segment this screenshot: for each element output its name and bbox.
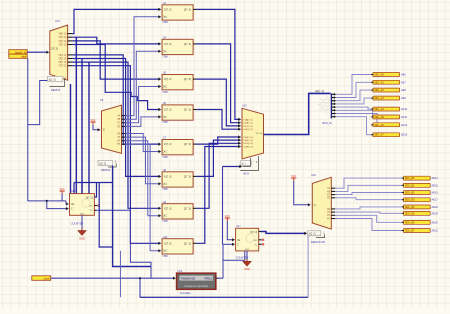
svg-text:SEG_A4: SEG_A4 <box>374 108 384 111</box>
svg-text:C: C <box>165 50 167 53</box>
wire demux U8 YD to register U6 C <box>125 117 159 127</box>
demux U8 DEMUX1X8 middle trapezoid <box>102 105 126 153</box>
svg-text:Q[7..0]: Q[7..0] <box>184 43 192 46</box>
wire demux Y7 to register U10 D <box>73 66 159 244</box>
demux U19 select hook wire <box>316 234 325 237</box>
wire VCC to U17 CE <box>227 221 232 240</box>
wire demux Y2 to register U5 D <box>73 41 159 79</box>
svg-text:MUX: MUX <box>243 172 249 176</box>
svg-text:D[7..0]: D[7..0] <box>164 43 171 46</box>
wire demux U19 YA to output label SEG_B0 <box>335 178 402 188</box>
counter U11 CLK to GND wire <box>81 215 83 230</box>
svg-text:C: C <box>165 250 167 253</box>
svg-text:YC: YC <box>327 195 331 197</box>
svg-text:SEG_A1: SEG_A1 <box>374 81 384 84</box>
svg-text:SEG_A7: SEG_A7 <box>374 134 384 137</box>
wire data label down the left side <box>28 58 66 201</box>
wire demux Y0 to register U3 D <box>73 9 159 33</box>
output label box SEG_B5 <box>402 211 430 215</box>
wire ripper tap 3 to output label SEG_A3 <box>336 98 371 104</box>
pin stub D U6 <box>193 109 197 111</box>
wire demux Y5 to register U8 D <box>73 59 159 177</box>
svg-text:C: C <box>165 151 167 154</box>
bus ripper tap 7 <box>331 116 334 118</box>
svg-text:SEG_B5: SEG_B5 <box>405 212 415 215</box>
wire U11 CE from junction <box>65 201 67 204</box>
svg-text:Q[7..0]: Q[7..0] <box>86 198 93 200</box>
svg-text:S[2..0]: S[2..0] <box>99 162 106 165</box>
svg-text:D0D[7..0]: D0D[7..0] <box>243 129 253 131</box>
svg-text:clock: clock <box>44 277 51 281</box>
svg-text:VCC: VCC <box>225 215 230 218</box>
power VCC <box>291 175 296 181</box>
wire input data bus to demux U14 D input <box>27 51 47 53</box>
output label box SEG_A2 <box>371 88 399 92</box>
svg-text:YB: YB <box>327 191 331 193</box>
wire demux U8 YB to register U4 C <box>125 51 159 119</box>
output label box SEG_A4 <box>371 107 399 111</box>
demux U14 DEMUX1X8 top-left trapezoid <box>50 25 73 80</box>
svg-text:CLKGEN: CLKGEN <box>180 291 191 295</box>
register U10 7398 <box>162 239 193 254</box>
svg-text:AE19: AE19 <box>432 211 439 215</box>
output label box SEG_A0 <box>371 73 399 77</box>
counter U11 right pin stub unconnected <box>94 205 97 207</box>
svg-text:Q[7..0]: Q[7..0] <box>184 143 192 146</box>
register U3 7398 <box>162 5 193 20</box>
svg-text:SEG_B7: SEG_B7 <box>405 230 415 233</box>
svg-text:S[2..0]: S[2..0] <box>309 233 316 236</box>
wire mux U15 select from clock/select vertical <box>223 166 241 168</box>
svg-text:D0F[7..0]: D0F[7..0] <box>243 140 252 142</box>
svg-text:AE7: AE7 <box>401 80 406 84</box>
svg-text:YC: YC <box>117 123 121 125</box>
output label box SEG_B1 <box>402 183 430 187</box>
svg-text:YH: YH <box>327 218 331 220</box>
svg-text:YA: YA <box>117 115 120 118</box>
svg-text:D0G[7..0]: D0G[7..0] <box>243 143 253 145</box>
svg-text:U14: U14 <box>55 20 60 23</box>
demux U8 select hook wire <box>108 163 116 167</box>
output label box SEG_B6 <box>402 220 430 224</box>
svg-text:U19: U19 <box>311 174 316 177</box>
svg-text:AE12: AE12 <box>401 123 408 127</box>
svg-text:D0H[7..0]: D0H[7..0] <box>243 146 253 148</box>
demux U19 DEMUX1X8 lower-right trapezoid <box>312 177 335 229</box>
input port label Data[7..0] <box>9 50 27 59</box>
pin stub D U5 <box>193 78 197 80</box>
ground GND U17 <box>243 259 252 271</box>
svg-text:D[7..0]: D[7..0] <box>164 207 171 210</box>
register U7 7398 <box>162 140 193 155</box>
svg-text:Y3[7..0]: Y3[7..0] <box>58 44 66 46</box>
demux U19 select box <box>308 231 321 236</box>
pin stub D U7 <box>193 143 197 145</box>
svg-text:DEMUX: DEMUX <box>101 168 111 172</box>
svg-text:Q[7..0]: Q[7..0] <box>184 175 192 178</box>
svg-text:SEG_A6: SEG_A6 <box>374 124 384 127</box>
svg-text:U10: U10 <box>163 236 168 239</box>
wire ripper tap 1 to output label SEG_A1 <box>336 82 371 97</box>
svg-text:Y2[7..0]: Y2[7..0] <box>58 41 66 43</box>
svg-text:U17: U17 <box>236 225 241 228</box>
wire demux U8 YC to register U5 C <box>125 87 159 123</box>
output label box SEG_B4 <box>402 205 430 209</box>
svg-text:SEG_A5: SEG_A5 <box>374 116 384 119</box>
svg-text:DEMUX: DEMUX <box>51 88 61 92</box>
svg-text:GND: GND <box>244 267 250 271</box>
svg-text:7398: 7398 <box>162 188 168 191</box>
output label box SEG_A1 <box>371 80 399 84</box>
wire demux U8 YH to register U10 C <box>125 144 159 250</box>
output label box SEG_B0 <box>402 176 430 180</box>
svg-text:D[7..0]: D[7..0] <box>164 109 171 112</box>
mux U15 select hook wires <box>243 158 250 167</box>
svg-text:AE14: AE14 <box>432 176 439 180</box>
register U8 7398 <box>162 172 193 187</box>
input port label clock <box>32 276 51 281</box>
svg-text:VCC: VCC <box>60 188 65 191</box>
wire branch to counter U11 C input <box>47 201 66 209</box>
bus ripper tap 5 <box>331 109 334 111</box>
svg-text:AE6: AE6 <box>401 73 406 77</box>
svg-text:SEG_B4: SEG_B4 <box>405 206 415 209</box>
wire register U9 Q to mux U15 input D6 <box>197 143 239 208</box>
svg-text:7398: 7398 <box>162 21 168 24</box>
svg-text:7398: 7398 <box>162 255 168 258</box>
wire timebase up to U17 <box>222 244 224 278</box>
wire timebase output <box>216 277 218 279</box>
pin stub D U8 <box>193 175 197 177</box>
svg-text:CE: CE <box>237 240 241 242</box>
output label box SEG_A7 <box>371 133 399 137</box>
svg-text:D[7..0]: D[7..0] <box>51 48 58 50</box>
svg-text:D0A[7..0]: D0A[7..0] <box>243 118 253 121</box>
wire select bus down to counter U11 c <box>70 84 72 194</box>
wire counter U11 aux vertical <box>99 183 112 248</box>
wire ripper tap 4 to output label SEG_A4 <box>336 107 371 109</box>
svg-text:YD: YD <box>117 126 121 128</box>
svg-text:D[7..0]: D[7..0] <box>164 8 171 11</box>
svg-text:Y1[7..0]: Y1[7..0] <box>58 37 66 39</box>
svg-text:CLK: CLK <box>80 213 85 215</box>
wire clock branch down to bottom rail <box>139 278 141 297</box>
demux U14 select box S[2..0] <box>47 76 63 81</box>
svg-text:D[7..0]: D[7..0] <box>164 143 171 146</box>
bus ripper BUS_IN <box>330 93 332 118</box>
svg-text:SEG_B2: SEG_B2 <box>405 192 415 195</box>
register U6 7398 <box>162 105 193 120</box>
svg-text:S[..]: S[..] <box>241 162 246 165</box>
wire select vertical down to timebase row <box>222 167 224 245</box>
wire register U5 Q to mux U15 input D2 <box>197 79 239 126</box>
ground GND U11 <box>78 228 87 240</box>
wire demux Y4 to register U7 D <box>73 55 159 144</box>
pin stub D U10 <box>193 242 197 244</box>
svg-text:7398: 7398 <box>162 156 168 159</box>
power VCC <box>60 188 65 194</box>
svg-text:VCC: VCC <box>90 119 95 122</box>
svg-text:GND: GND <box>79 236 85 240</box>
wire demux U19 YC to output label SEG_B2 <box>335 193 402 195</box>
svg-text:Q[7..0]: Q[7..0] <box>184 109 192 112</box>
wire ripper tap 7 to output label SEG_A7 <box>336 117 371 135</box>
svg-text:YE: YE <box>327 209 331 211</box>
counter U11 right pin TC wire <box>94 209 96 211</box>
svg-text:TC: TC <box>90 210 93 212</box>
svg-text:AE8: AE8 <box>401 88 406 92</box>
wire demux U14 S select route <box>28 81 48 125</box>
svg-text:YE: YE <box>117 133 121 135</box>
svg-text:7398: 7398 <box>162 56 168 59</box>
svg-text:SEG_A3: SEG_A3 <box>374 97 384 100</box>
wire demux U19 YB to output label SEG_B1 <box>335 185 402 191</box>
svg-text:Y[7..0]: Y[7..0] <box>256 133 263 135</box>
bus ripper tap 0 <box>331 93 334 95</box>
svg-text:Y5[7..0]: Y5[7..0] <box>58 58 66 60</box>
svg-text:CLK: CLK <box>245 249 250 251</box>
demux U14 select hook wire <box>49 78 64 87</box>
svg-text:7398: 7398 <box>162 121 168 124</box>
svg-text:DEMUX1X8: DEMUX1X8 <box>311 240 326 244</box>
wire demux Y3 to register U6 D <box>73 45 159 110</box>
svg-text:AE11: AE11 <box>401 115 408 119</box>
wire register U7 Q to mux U15 input D4 <box>197 137 239 144</box>
pin stub D U9 <box>193 207 197 209</box>
svg-text:D0C[7..0]: D0C[7..0] <box>243 126 253 128</box>
wire ripper tap 0 to output label SEG_A0 <box>336 75 371 95</box>
wire VCC to demux U19 D input <box>294 181 309 205</box>
svg-text:AE21: AE21 <box>432 229 439 233</box>
svg-text:AE18: AE18 <box>432 205 439 209</box>
svg-text:YA: YA <box>327 187 330 190</box>
wire ripper tap 2 to output label SEG_A2 <box>336 90 371 101</box>
pin arrows U11 left <box>66 202 69 205</box>
wire clock to timebase input <box>51 277 174 279</box>
svg-text:AE[7..0]: AE[7..0] <box>315 90 324 93</box>
mux U15 select box <box>240 161 251 166</box>
wire register U4 Q to mux U15 input D1 <box>197 44 239 123</box>
pin stub D U3 <box>193 8 197 10</box>
svg-text:Y4[7..0]: Y4[7..0] <box>58 55 66 57</box>
svg-text:CE: CE <box>71 204 75 206</box>
output label box SEG_A5 <box>371 115 399 119</box>
svg-text:U15: U15 <box>242 105 247 108</box>
pin stub D U4 <box>193 43 197 45</box>
svg-text:SEG_B6: SEG_B6 <box>405 221 415 224</box>
select bus stubs into U11 top <box>73 183 75 194</box>
wire register U8 Q to mux U15 input D5 <box>197 140 239 176</box>
wire counter U17 Q to demux U19 select <box>259 231 261 233</box>
svg-text:7398: 7398 <box>162 91 168 94</box>
svg-text:Y0[7..0]: Y0[7..0] <box>58 34 66 36</box>
wire ripper tap 5 to output label SEG_A5 <box>336 110 372 117</box>
output label box SEG_B7 <box>402 229 430 233</box>
svg-text:TIMEBASE: TIMEBASE <box>180 277 195 281</box>
svg-text:C: C <box>165 16 167 19</box>
wire select bus right into demux U19 S <box>222 266 224 268</box>
wire demux U8 YE to register U7 C <box>125 134 159 152</box>
select bus horizontal above U11 <box>74 182 113 184</box>
svg-text:Q[7..0]: Q[7..0] <box>184 207 192 210</box>
wire demux U19 YD to output label SEG_B3 <box>335 198 402 200</box>
counter U17 right pins unconnected <box>259 239 262 241</box>
bus ripper tap 4 <box>331 106 334 108</box>
output label box SEG_B2 <box>402 191 430 195</box>
node junction timebase branch <box>139 277 141 279</box>
svg-text:SEG_B0: SEG_B0 <box>405 177 415 180</box>
wire demux U19 YE to output label SEG_B4 <box>335 207 402 209</box>
svg-text:AE9: AE9 <box>401 96 406 100</box>
svg-text:AE15: AE15 <box>432 183 439 187</box>
svg-text:ClO: ClO <box>253 240 257 242</box>
wire demux U19 YH to output label SEG_B7 <box>335 219 402 231</box>
svg-text:Q[7..0]: Q[7..0] <box>184 78 192 81</box>
svg-text:YG: YG <box>327 215 331 217</box>
svg-text:ClO: ClO <box>89 205 93 207</box>
timebase U16 frequency generator <box>177 273 216 289</box>
wire select bus down to counter U11 a <box>75 37 77 193</box>
wire demux U8 YF to register U8r C <box>125 137 159 184</box>
svg-text:Y6[7..0]: Y6[7..0] <box>58 62 66 64</box>
register U4 7398 <box>162 39 193 54</box>
wire ripper tap 6 to output label SEG_A6 <box>336 114 377 125</box>
svg-text:AE16: AE16 <box>432 191 439 195</box>
output label box SEG_A3 <box>371 96 399 100</box>
power VCC <box>225 215 230 221</box>
wire VCC to demux U8 D input <box>93 125 98 130</box>
bus ripper tap 2 <box>331 100 334 102</box>
mux U15 MUX8X1 trapezoid <box>242 108 264 159</box>
svg-text:Y7[7..0]: Y7[7..0] <box>58 66 66 68</box>
svg-text:YD: YD <box>327 198 331 200</box>
svg-text:AE20: AE20 <box>432 220 439 224</box>
svg-text:D0B[7..0]: D0B[7..0] <box>243 123 253 125</box>
svg-text:C: C <box>165 116 167 119</box>
register U5 7398 <box>162 75 193 90</box>
svg-text:YG: YG <box>117 141 121 143</box>
register U9 7398 <box>162 204 193 219</box>
wire register U10 C down to clock rail <box>120 251 122 298</box>
svg-text:S[2..0]: S[2..0] <box>49 78 56 81</box>
svg-text:data: data <box>21 56 26 59</box>
svg-text:D[7..0]: D[7..0] <box>164 242 171 245</box>
svg-text:D[7..0]: D[7..0] <box>164 78 171 81</box>
wire demux U19 YF to output label SEG_B5 <box>335 212 402 213</box>
bus ripper tap 1 <box>331 97 334 99</box>
svg-text:C: C <box>165 183 167 186</box>
wire register U6 Q to mux U15 input D3 <box>197 110 239 130</box>
svg-text:C: C <box>165 215 167 218</box>
counter U11 <box>70 194 95 216</box>
watermark gear <box>318 96 335 113</box>
output label box SEG_A6 <box>371 123 399 127</box>
svg-text:Q[7..0]: Q[7..0] <box>184 8 192 11</box>
svg-text:SEG_B3: SEG_B3 <box>405 199 415 202</box>
svg-text:Q[7..0]: Q[7..0] <box>250 232 257 234</box>
svg-text:TC: TC <box>254 244 257 246</box>
svg-text:SEG_B1: SEG_B1 <box>405 184 415 187</box>
svg-text:7398: 7398 <box>162 220 168 223</box>
svg-text:BUS_IN: BUS_IN <box>323 122 332 125</box>
bus ripper tap 3 <box>331 103 334 105</box>
demux U8 select box <box>98 161 113 166</box>
small stub wire near U17 bottom <box>223 251 245 260</box>
counter U17 CLK to GND wire <box>246 251 248 261</box>
svg-text:D0E[7..0]: D0E[7..0] <box>243 137 253 139</box>
bus ripper tap 6 <box>331 113 334 115</box>
svg-text:AE10: AE10 <box>401 107 408 111</box>
wire demux Y1 to register U4 D <box>73 37 159 44</box>
svg-text:C: C <box>165 86 167 89</box>
wire select bus down to counter U11 b <box>81 59 83 194</box>
bottom clock rail wire <box>140 296 308 298</box>
svg-text:YB: YB <box>117 119 121 121</box>
svg-text:YH: YH <box>117 144 121 146</box>
output label box SEG_B3 <box>402 198 430 202</box>
svg-text:FREQ: FREQ <box>204 277 213 281</box>
wire counter U11 Q up to select bus <box>94 183 96 198</box>
svg-text:SEG_A2: SEG_A2 <box>374 89 384 92</box>
svg-text:Q[7..0]: Q[7..0] <box>184 242 192 245</box>
wire clock to U17 C <box>223 243 233 245</box>
wire demux Y6 to register U9 D <box>73 62 159 208</box>
wire bottom rail up to demux U19 select area <box>307 236 309 298</box>
node junction at counter U11 CE branch <box>46 200 48 202</box>
wire select bus down to counter U11 d <box>88 62 90 194</box>
power VCC <box>90 119 95 125</box>
svg-text:AE13: AE13 <box>401 133 408 137</box>
svg-text:D[7..0]: D[7..0] <box>164 175 171 178</box>
svg-text:SEG_A0: SEG_A0 <box>374 74 384 77</box>
svg-text:AE17: AE17 <box>432 198 439 202</box>
wire VCC to U11 <box>61 194 63 201</box>
select bus to demux U19 <box>113 166 151 267</box>
wire mux U15 output bus AE[7..0] <box>264 93 331 134</box>
wire demux U8 YG to register U9 C <box>125 141 159 216</box>
wire demux U8 YA to register U3 C <box>125 17 159 116</box>
svg-text:Frequency Generator: Frequency Generator <box>184 285 208 288</box>
counter U17 <box>236 228 259 251</box>
wire register U10 Q to mux U15 input D7 <box>197 147 239 244</box>
svg-text:VCC: VCC <box>291 175 296 178</box>
svg-text:U16: U16 <box>178 270 183 273</box>
wire demux U19 YG to output label SEG_B6 <box>335 215 402 222</box>
wire register U3 Q to mux U15 input D0 <box>197 9 239 119</box>
